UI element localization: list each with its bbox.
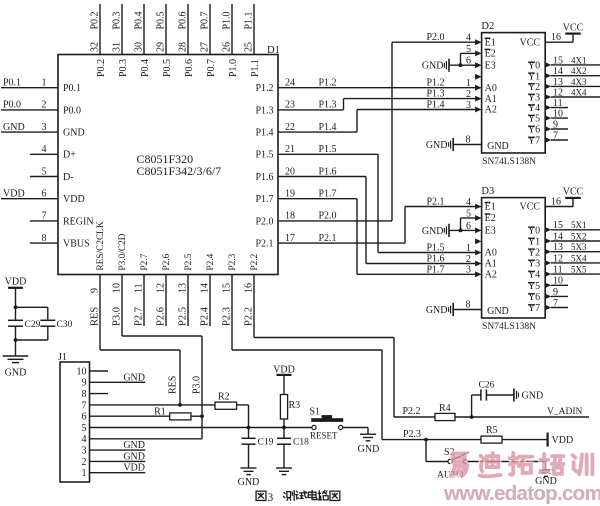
svg-text:P0.0: P0.0 — [3, 100, 21, 111]
svg-text:26: 26 — [222, 42, 233, 52]
svg-text:8: 8 — [466, 135, 471, 146]
svg-text:VDD: VDD — [273, 364, 295, 375]
svg-text:P3.0: P3.0 — [192, 376, 203, 394]
svg-text:1: 1 — [82, 468, 87, 479]
svg-text:RESET: RESET — [310, 430, 338, 440]
svg-text:D+: D+ — [63, 150, 76, 161]
svg-text:4X3: 4X3 — [571, 77, 587, 87]
svg-text:2: 2 — [466, 254, 471, 265]
svg-text:P2.2: P2.2 — [403, 406, 421, 417]
svg-text:P1.2: P1.2 — [427, 78, 445, 89]
svg-text:P2.0: P2.0 — [255, 216, 273, 227]
svg-text:P1.6: P1.6 — [255, 172, 273, 183]
svg-text:17: 17 — [285, 233, 295, 244]
svg-text:1: 1 — [466, 243, 471, 254]
svg-text:A1: A1 — [485, 94, 497, 105]
svg-text:P1.4: P1.4 — [255, 128, 273, 139]
svg-text:P1.0: P1.0 — [228, 59, 239, 77]
svg-text:P1.7: P1.7 — [255, 194, 273, 205]
svg-text:7: 7 — [42, 211, 47, 222]
svg-text:5: 5 — [82, 423, 87, 434]
svg-text:E1: E1 — [485, 37, 496, 48]
svg-text:D1: D1 — [267, 45, 280, 56]
svg-text:E2: E2 — [485, 213, 496, 224]
svg-text:VDD: VDD — [63, 194, 85, 205]
svg-text:4: 4 — [82, 434, 87, 445]
svg-text:13: 13 — [553, 77, 563, 88]
svg-text:VDD: VDD — [123, 463, 145, 474]
svg-text:REGIN: REGIN — [63, 216, 94, 227]
svg-text:P0.1: P0.1 — [3, 78, 21, 89]
svg-text:4X1: 4X1 — [571, 55, 587, 65]
svg-text:P0.2: P0.2 — [96, 59, 107, 77]
svg-text:P2.3: P2.3 — [403, 429, 421, 440]
svg-text:VBUS: VBUS — [63, 239, 90, 250]
svg-text:P2.0: P2.0 — [427, 32, 445, 43]
svg-text:P1.2: P1.2 — [255, 83, 273, 94]
svg-text:31: 31 — [112, 42, 123, 52]
svg-text:4X4: 4X4 — [571, 87, 587, 97]
svg-text:P0.1: P0.1 — [63, 83, 81, 94]
svg-text:RES/C2CLK: RES/C2CLK — [96, 221, 106, 270]
svg-text:9: 9 — [90, 288, 101, 293]
svg-text:15: 15 — [553, 220, 563, 231]
svg-text:P2.1: P2.1 — [255, 239, 273, 250]
svg-text:GND: GND — [63, 128, 85, 139]
svg-text:VDD: VDD — [5, 276, 27, 287]
svg-text:A2: A2 — [485, 105, 497, 116]
svg-text:GND: GND — [426, 305, 448, 316]
svg-text:3: 3 — [268, 492, 274, 504]
svg-text:12: 12 — [553, 87, 563, 98]
svg-text:E3: E3 — [485, 226, 496, 237]
svg-text:13: 13 — [178, 283, 189, 293]
svg-text:C30: C30 — [57, 320, 73, 330]
svg-text:18: 18 — [285, 211, 295, 222]
svg-text:11: 11 — [553, 265, 563, 276]
svg-text:P2.7: P2.7 — [134, 307, 145, 326]
svg-text:VCC: VCC — [520, 202, 541, 213]
svg-text:8: 8 — [466, 300, 471, 311]
svg-text:29: 29 — [156, 42, 167, 52]
svg-text:P0.7: P0.7 — [206, 59, 217, 77]
svg-text:23: 23 — [285, 100, 295, 111]
svg-text:P3.0: P3.0 — [112, 307, 123, 326]
svg-text:P1.5: P1.5 — [319, 144, 337, 155]
svg-text:RES: RES — [90, 307, 101, 326]
svg-text:5X4: 5X4 — [571, 253, 587, 263]
svg-text:10: 10 — [77, 366, 87, 377]
svg-text:9: 9 — [553, 119, 558, 130]
svg-text:P0.3: P0.3 — [112, 11, 123, 29]
svg-text:R1: R1 — [154, 406, 166, 417]
svg-text:P0.5: P0.5 — [156, 11, 167, 29]
svg-text:P1.5: P1.5 — [255, 150, 273, 161]
svg-text:6: 6 — [82, 412, 87, 423]
svg-text:20: 20 — [285, 166, 295, 177]
svg-text:P0.7: P0.7 — [200, 11, 211, 29]
svg-text:P2.0: P2.0 — [319, 211, 337, 222]
svg-text:R4: R4 — [439, 403, 451, 414]
svg-text:C8051F342/3/6/7: C8051F342/3/6/7 — [137, 164, 222, 178]
svg-text:2: 2 — [82, 457, 87, 468]
svg-text:A2: A2 — [485, 270, 497, 281]
svg-text:5X5: 5X5 — [571, 265, 587, 275]
svg-text:P1.3: P1.3 — [255, 105, 273, 116]
svg-text:P1.5: P1.5 — [427, 243, 445, 254]
svg-text:P2.3: P2.3 — [228, 253, 238, 270]
svg-text:VDD: VDD — [552, 435, 574, 446]
svg-text:P1.6: P1.6 — [427, 254, 445, 265]
svg-text:11: 11 — [134, 283, 145, 293]
svg-text:P1.4: P1.4 — [427, 100, 445, 111]
svg-text:2: 2 — [42, 100, 47, 111]
svg-text:22: 22 — [285, 122, 295, 133]
svg-text:15: 15 — [222, 283, 233, 293]
svg-text:10: 10 — [553, 109, 563, 120]
svg-text:GND: GND — [123, 451, 145, 462]
svg-text:VCC: VCC — [520, 37, 541, 48]
svg-text:16: 16 — [551, 32, 561, 43]
svg-text:P3.0/C2D: P3.0/C2D — [118, 233, 128, 270]
svg-text:P1.3: P1.3 — [319, 100, 337, 111]
svg-text:P0.4: P0.4 — [134, 11, 145, 29]
svg-text:30: 30 — [134, 42, 145, 52]
svg-text:GND: GND — [358, 444, 380, 455]
svg-text:11: 11 — [553, 98, 563, 109]
svg-text:C29: C29 — [25, 320, 41, 330]
svg-text:P0.3: P0.3 — [118, 59, 129, 77]
svg-text:R5: R5 — [486, 425, 498, 436]
svg-text:6: 6 — [42, 189, 47, 200]
svg-text:P2.6: P2.6 — [156, 307, 167, 326]
svg-text:P1.0: P1.0 — [222, 11, 233, 29]
svg-text:GND: GND — [487, 306, 509, 317]
svg-text:P0.6: P0.6 — [178, 11, 189, 29]
svg-text:16: 16 — [244, 283, 255, 293]
svg-text:D-: D- — [63, 172, 74, 183]
svg-text:P1.1: P1.1 — [250, 59, 261, 77]
svg-text:P2.4: P2.4 — [200, 306, 211, 326]
svg-text:P1.1: P1.1 — [244, 11, 255, 29]
svg-text:4: 4 — [42, 144, 47, 155]
svg-text:P1.6: P1.6 — [319, 166, 337, 177]
svg-text:P0.0: P0.0 — [63, 105, 81, 116]
svg-text:P2.2: P2.2 — [244, 307, 255, 326]
svg-text:GND: GND — [5, 368, 27, 379]
svg-text:3: 3 — [82, 446, 87, 457]
svg-text:P0.5: P0.5 — [162, 59, 173, 77]
svg-text:10: 10 — [553, 276, 563, 287]
svg-text:27: 27 — [200, 42, 211, 52]
svg-text:P1.7: P1.7 — [427, 264, 445, 275]
svg-text:R3: R3 — [289, 400, 301, 411]
svg-text:12: 12 — [553, 253, 563, 264]
svg-text:GND: GND — [426, 140, 448, 151]
svg-text:P2.3: P2.3 — [222, 307, 233, 326]
svg-text:P2.6: P2.6 — [162, 253, 172, 270]
svg-text:P1.3: P1.3 — [427, 89, 445, 100]
svg-text:SN74LS138N: SN74LS138N — [482, 157, 536, 167]
svg-text:P2.2: P2.2 — [250, 253, 260, 270]
svg-text:P0.2: P0.2 — [90, 11, 101, 29]
svg-text:VDD: VDD — [3, 189, 25, 200]
svg-text:P2.4: P2.4 — [206, 253, 216, 270]
svg-text:7: 7 — [82, 400, 87, 411]
svg-text:GND: GND — [123, 440, 145, 451]
svg-text:P2.1: P2.1 — [319, 233, 337, 244]
svg-text:14: 14 — [553, 66, 563, 77]
svg-text:21: 21 — [285, 144, 295, 155]
svg-text:A0: A0 — [485, 83, 497, 94]
svg-text:VCC: VCC — [563, 22, 584, 33]
svg-text:RES: RES — [168, 376, 179, 394]
svg-text:S1: S1 — [310, 407, 321, 418]
svg-text:C19: C19 — [258, 438, 274, 448]
svg-text:J1: J1 — [58, 352, 67, 363]
svg-text:P0.6: P0.6 — [184, 59, 195, 77]
svg-text:GND: GND — [3, 122, 25, 133]
svg-text:5X2: 5X2 — [571, 231, 587, 241]
svg-text:A0: A0 — [485, 248, 497, 259]
svg-text:32: 32 — [90, 42, 101, 52]
svg-text:GND: GND — [422, 226, 444, 237]
svg-text:P2.7: P2.7 — [140, 253, 150, 270]
svg-text:E2: E2 — [485, 49, 496, 60]
svg-text:28: 28 — [178, 42, 189, 52]
svg-text:5: 5 — [42, 166, 47, 177]
svg-text:P2.5: P2.5 — [178, 307, 189, 326]
svg-text:GND: GND — [487, 141, 509, 152]
svg-text:P2.1: P2.1 — [427, 197, 445, 208]
svg-text:5X1: 5X1 — [571, 220, 587, 230]
svg-text:8: 8 — [82, 389, 87, 400]
svg-text:19: 19 — [285, 189, 295, 200]
svg-text:C18: C18 — [293, 438, 309, 448]
svg-text:5X3: 5X3 — [571, 242, 587, 252]
svg-text:8: 8 — [42, 233, 47, 244]
svg-text:P2.5: P2.5 — [184, 253, 194, 270]
svg-text:www.edatop.com: www.edatop.com — [443, 482, 600, 505]
svg-text:R2: R2 — [218, 392, 230, 403]
svg-text:10: 10 — [112, 283, 123, 293]
svg-text:3: 3 — [466, 265, 471, 276]
svg-text:14: 14 — [200, 283, 211, 293]
svg-text:GND: GND — [238, 477, 260, 488]
svg-text:GND: GND — [123, 372, 145, 383]
svg-text:4: 4 — [466, 33, 471, 44]
svg-text:GND: GND — [422, 61, 444, 72]
svg-text:7: 7 — [553, 298, 558, 309]
svg-text:24: 24 — [285, 78, 295, 89]
svg-text:4: 4 — [466, 197, 471, 208]
svg-text:3: 3 — [42, 122, 47, 133]
svg-text:1: 1 — [466, 78, 471, 89]
svg-text:P0.4: P0.4 — [140, 59, 151, 77]
svg-text:12: 12 — [156, 283, 167, 293]
svg-text:3: 3 — [466, 100, 471, 111]
svg-text:GND: GND — [522, 391, 544, 402]
svg-text:25: 25 — [244, 42, 255, 52]
svg-text:13: 13 — [553, 242, 563, 253]
svg-text:D3: D3 — [481, 186, 494, 197]
svg-text:16: 16 — [551, 197, 561, 208]
svg-text:2: 2 — [466, 89, 471, 100]
svg-text:4X2: 4X2 — [571, 66, 587, 76]
svg-text:A1: A1 — [485, 259, 497, 270]
svg-text:E1: E1 — [485, 202, 496, 213]
svg-text:14: 14 — [553, 231, 563, 242]
svg-text:7: 7 — [553, 130, 558, 141]
svg-text:1: 1 — [42, 78, 47, 89]
svg-text:15: 15 — [553, 55, 563, 66]
svg-text:P1.7: P1.7 — [319, 189, 337, 200]
svg-text:9: 9 — [553, 287, 558, 298]
svg-text:P1.2: P1.2 — [319, 78, 337, 89]
svg-text:C26: C26 — [479, 381, 495, 391]
svg-text:VCC: VCC — [563, 187, 584, 198]
svg-text:E3: E3 — [485, 60, 496, 71]
svg-text:9: 9 — [82, 378, 87, 389]
svg-text:SN74LS138N: SN74LS138N — [482, 322, 536, 332]
svg-text:P1.4: P1.4 — [319, 122, 337, 133]
svg-text:D2: D2 — [481, 21, 494, 32]
svg-text:V_ADIN: V_ADIN — [547, 407, 582, 417]
